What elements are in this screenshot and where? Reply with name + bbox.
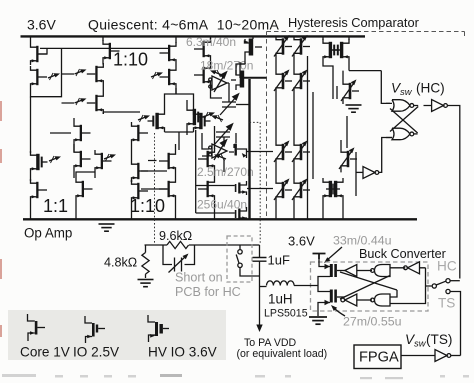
inductor 1uH (267, 281, 295, 286)
NOR gate latch bottom (392, 128, 414, 140)
buck converter dashed box (311, 262, 429, 311)
gate arrow marker of M2 (48, 73, 60, 80)
wire M12 leads (73, 118, 75, 152)
power symbol 3.6V tee (313, 254, 326, 260)
callout arrow to pmos (327, 247, 343, 261)
svg-text:(TS): (TS) (426, 332, 452, 347)
svg-text:sw: sw (414, 339, 427, 350)
gate arrow marker of M9 (151, 72, 163, 79)
trim capacitor compensation upper (220, 94, 239, 115)
legend IO transistor symbol (85, 316, 105, 343)
wire M6 M7 gate stubs (62, 74, 75, 103)
amp triangle 2.5m/270n stage (209, 140, 227, 160)
wire MO3 leads (186, 100, 188, 135)
faint caption fragments (2, 374, 469, 379)
ground rail at bottom of op amp and comparator (23, 218, 417, 220)
transistor M12 folded cascode left (74, 122, 91, 144)
wire input pair tail (165, 88, 194, 110)
wire M2 source down and bias loop (31, 48, 62, 96)
svg-text:HV IO 3.6V: HV IO 3.6V (148, 345, 217, 360)
transistor MO6 mos on bus mid row (235, 181, 247, 195)
wire rail drop to M5 (102, 36, 104, 41)
wire inverter out to HC bus (447, 106, 459, 279)
ground symbol under op amp rail (99, 224, 115, 231)
wire MC13 MC14 to rail (323, 189, 343, 219)
wire 18m stage feed (227, 64, 245, 102)
svg-text:IO 2.5V: IO 2.5V (73, 345, 119, 360)
transistor M8 pmos right of 1:10 label (160, 42, 177, 64)
wire comparator left column drops (276, 36, 294, 219)
amp triangle 18m/270n stage (209, 72, 227, 92)
wire right mirror column (175, 144, 177, 219)
NAND gate bottom driver (371, 294, 390, 306)
svg-text:Short on: Short on (175, 271, 223, 285)
svg-text:FPGA: FPGA (359, 350, 399, 366)
ground symbol comparator mid (346, 105, 362, 112)
dashed box around short switch (227, 236, 252, 282)
transistor MC5 comparator slashed nmos (274, 140, 292, 163)
wire MC9 MC10 gate tie (323, 50, 349, 86)
transistor MC2 comparator slashed pmos (292, 35, 310, 58)
svg-text:1uF: 1uF (268, 253, 290, 268)
wire inverter output up to latch (379, 138, 392, 173)
wire driver inv to nand bottom (357, 299, 372, 301)
wire output column thick bus (248, 79, 250, 219)
wire M13 down to bottom pair (94, 172, 96, 178)
transistor M24 right branch bottom (198, 178, 215, 200)
wire op amp left column from rail (30, 36, 32, 43)
wire M8 to M9 to tail node (175, 64, 177, 94)
transistor MC8 comparator slashed nmos (292, 178, 310, 201)
wire input pair drains join (165, 132, 194, 150)
wire M6 to M7 and down (103, 85, 140, 114)
transistor MC11 comparator slashed mos mid (341, 79, 359, 102)
wire inverter input (356, 171, 363, 173)
arrow on pmos source (325, 264, 331, 269)
svg-text:33m/0.44u: 33m/0.44u (333, 234, 392, 248)
wire rail drop to output pmos (252, 36, 254, 39)
svg-text:Op Amp: Op Amp (24, 226, 72, 241)
svg-text:3.6V: 3.6V (288, 234, 315, 249)
wire 1uF cap branch (259, 245, 261, 287)
transistor MC1 comparator slashed pmos (274, 35, 292, 58)
transistor M18 mirror right upper (159, 150, 176, 172)
svg-text:TS: TS (438, 296, 455, 311)
switch HC TS selector (432, 279, 460, 356)
inverter TS output (435, 350, 451, 362)
transistor M16 center ladder mid (132, 160, 149, 182)
gate arrow marker of M10 (138, 115, 150, 122)
transistor M4 nmos tail mirror (31, 179, 48, 201)
transistor MC12 comparator slashed pmos lower (339, 147, 357, 170)
transistor M10 input pair left thick gate (148, 110, 165, 132)
wire trimcap to output bus (236, 104, 250, 106)
svg-text:Buck Converter: Buck Converter (359, 247, 446, 261)
gate arrow marker of M11 (211, 115, 223, 122)
wire center ladder column (131, 144, 133, 219)
wire comparator left column right-side verticals (308, 56, 314, 219)
transistor M3 thick gate nmos (31, 151, 48, 173)
NOR gate latch top (392, 100, 414, 112)
wire mirror cross links (141, 161, 167, 190)
wire op amp output thick horizontal (240, 77, 267, 79)
svg-text:4.8kΩ: 4.8kΩ (104, 256, 137, 270)
svg-text:1:1: 1:1 (43, 196, 68, 216)
svg-text:3.6V: 3.6V (27, 17, 56, 33)
dotted comparator input line B (250, 122, 261, 244)
svg-text:1uH: 1uH (268, 292, 293, 307)
wire M12 gate line left (50, 132, 71, 134)
transistor MC6 comparator slashed nmos (292, 140, 310, 163)
wire pmos drain to switch node (318, 277, 330, 286)
wire mirror to MO6 gate (196, 130, 235, 213)
ground symbol under nmos (309, 317, 327, 324)
svg-text:Quiescent: 4~6mA 10~20mA: Quiescent: 4~6mA 10~20mA (88, 17, 280, 33)
svg-text:PCB for HC: PCB for HC (175, 285, 241, 299)
wire M5 drain to cascode pair (102, 62, 104, 65)
wire latch NOR2 stub (414, 133, 418, 135)
buffer pmos gate driver (345, 265, 357, 277)
resistor 4.8k vertical (142, 245, 149, 278)
wire trim cap loop (163, 245, 195, 265)
wire cross coupling buck X (340, 272, 397, 299)
wire divider top node (145, 244, 260, 246)
transistor M15 center ladder upper (132, 122, 149, 144)
transistor MC9 comparator mirror pmos left (323, 39, 340, 61)
transistor M2 cascode below M1 (31, 66, 48, 88)
transistor M23 right branch cascode (198, 148, 215, 170)
transistor M19 mirror right lower (159, 178, 176, 200)
transistor M14 bottom left nmos of 1:1 (76, 178, 93, 200)
svg-text:Core 1V: Core 1V (20, 345, 70, 360)
capacitor gate cap comparator (333, 86, 337, 99)
wire buck feedback bus (390, 268, 432, 304)
wire output column vertical upper (240, 56, 245, 78)
transistor MC13 comparator nmos pair left (323, 178, 340, 200)
switch short on PCB (236, 245, 259, 276)
FPGA box (354, 345, 401, 369)
svg-text:1:10: 1:10 (113, 50, 148, 70)
trim capacitor across 9.6k (169, 254, 189, 273)
transistor MC14 comparator nmos pair right (326, 178, 343, 200)
transistor M25 left mid extra (74, 148, 91, 170)
wire inverter to nand input (390, 267, 426, 269)
legend core transistor symbol (28, 314, 46, 341)
transistor M21 second stage nmos (194, 64, 211, 86)
wire nmos source to ground (318, 303, 330, 317)
gate arrow marker of M21 (210, 70, 222, 77)
inverter comparator to latch R input (363, 167, 379, 179)
legend background box (8, 310, 226, 360)
svg-text:HC: HC (437, 259, 457, 274)
transistor M9 pmos cascode under M8 (160, 66, 177, 88)
svg-text:1:10: 1:10 (130, 196, 165, 216)
transistor MC4 comparator slashed pmos (292, 69, 310, 92)
svg-text:(or equivalent load): (or equivalent load) (237, 348, 328, 360)
legend HV IO transistor symbol (148, 315, 169, 342)
inverter nmos gate driver (341, 294, 357, 306)
trim capacitor compensation lower (214, 124, 233, 145)
transistor MO4 2.5m mos (229, 144, 247, 159)
transistor M7 pmos cascode lower (87, 92, 104, 114)
capacitor 1uF (253, 258, 267, 262)
hysteresis comparator dashed box left edge (266, 32, 268, 220)
wire M20 M21 column (211, 60, 223, 98)
wire M14 to rail (76, 172, 95, 219)
wire FPGA to buffer (401, 355, 435, 357)
transistor M1 top left pmos mirror (31, 43, 48, 65)
inverter hc input small (404, 262, 420, 274)
svg-text:(HC): (HC) (416, 81, 445, 96)
gate arrow marker of M3 (49, 156, 61, 163)
wire M25 leads (73, 144, 75, 178)
wire latch cross coupling X (386, 103, 418, 137)
transistor MC3 comparator slashed pmos (274, 69, 292, 92)
dotted feedback line to divider left (154, 133, 156, 245)
gate arrow marker of M7 (75, 98, 87, 105)
arrow on nmos source (325, 300, 331, 305)
wire M3 to M4 (30, 173, 32, 181)
transistor MP power pmos 33m (330, 264, 345, 277)
transistor M17 center ladder low (132, 180, 149, 202)
svg-text:27m/0.55u: 27m/0.55u (343, 315, 402, 329)
wire M4 source to ground rail (30, 201, 32, 219)
arrow to PA VDD load (259, 287, 261, 327)
hysteresis comparator dashed box top edge (267, 32, 465, 37)
svg-text:Hysteresis Comparator: Hysteresis Comparator (288, 15, 420, 30)
transistor M13 mirror mid left (95, 150, 112, 172)
gate arrow marker of MO3 (203, 112, 215, 119)
callout arrow to nmos (334, 308, 346, 317)
wire MC12 column and tap (341, 116, 356, 196)
svg-text:sw: sw (400, 87, 413, 98)
transistor M11 input pair right thick gate (194, 110, 211, 132)
wire rail drops comparator mid pair (323, 36, 349, 40)
wire 3.6V top supply rail (21, 35, 366, 37)
wire buffer to nand top (357, 270, 372, 272)
red scan artifacts left edge (0, 101, 2, 337)
transistor M20 second stage cascode pmos (194, 38, 211, 60)
transistor M6 pmos cascode (87, 63, 104, 85)
svg-text:LPS5015: LPS5015 (264, 308, 308, 320)
wire MC11 to ground (342, 102, 344, 104)
wire op amp gate bias line (39, 48, 169, 54)
NAND gate top driver (371, 265, 390, 277)
wire inverter to TS bus (451, 355, 461, 357)
transistor MN power nmos 27m (330, 290, 345, 303)
svg-text:2.5m/270n: 2.5m/270n (197, 165, 254, 179)
transistor MO7 mos on bus 256u row (235, 207, 247, 220)
resistor 9.6k horizontal (167, 241, 189, 248)
svg-text:9.6kΩ: 9.6kΩ (159, 229, 192, 243)
transistor MO3 nmos thick under 6.3m label (187, 106, 204, 128)
transistor MC10 comparator mirror pmos right (332, 39, 349, 61)
gate arrow marker of M23 (214, 154, 226, 161)
wire cap node to inductor (260, 286, 267, 288)
svg-text:6.3m/40n: 6.3m/40n (186, 35, 236, 49)
wire pmos source to 3.6V (319, 259, 330, 267)
wire rail drop to M20 (210, 36, 212, 39)
transistor MO2 18m mos (231, 70, 244, 90)
wire left column long drop to M3 (30, 97, 32, 153)
gate arrow marker of M13 (104, 154, 116, 161)
transistor MC7 comparator slashed nmos (274, 178, 292, 201)
gate arrow marker of M6 (75, 69, 87, 76)
transistor MO1 output pmos 6.3m/40n (244, 39, 262, 57)
wire switch node to inductor (294, 286, 330, 292)
inverter latch output (432, 100, 448, 112)
wire 2.5m stage links (202, 133, 236, 165)
wire rail drop to M8 (175, 36, 177, 43)
wire comparator output node L to latch (349, 71, 390, 104)
transistor M5 pmos 1:10 mirror top (103, 40, 120, 62)
wire comparator input gates from op amp (247, 152, 273, 189)
wire right branch column (214, 126, 216, 219)
wire latch NOR1 out to inverter (414, 105, 432, 107)
ground symbol under 4.8k (138, 280, 154, 287)
